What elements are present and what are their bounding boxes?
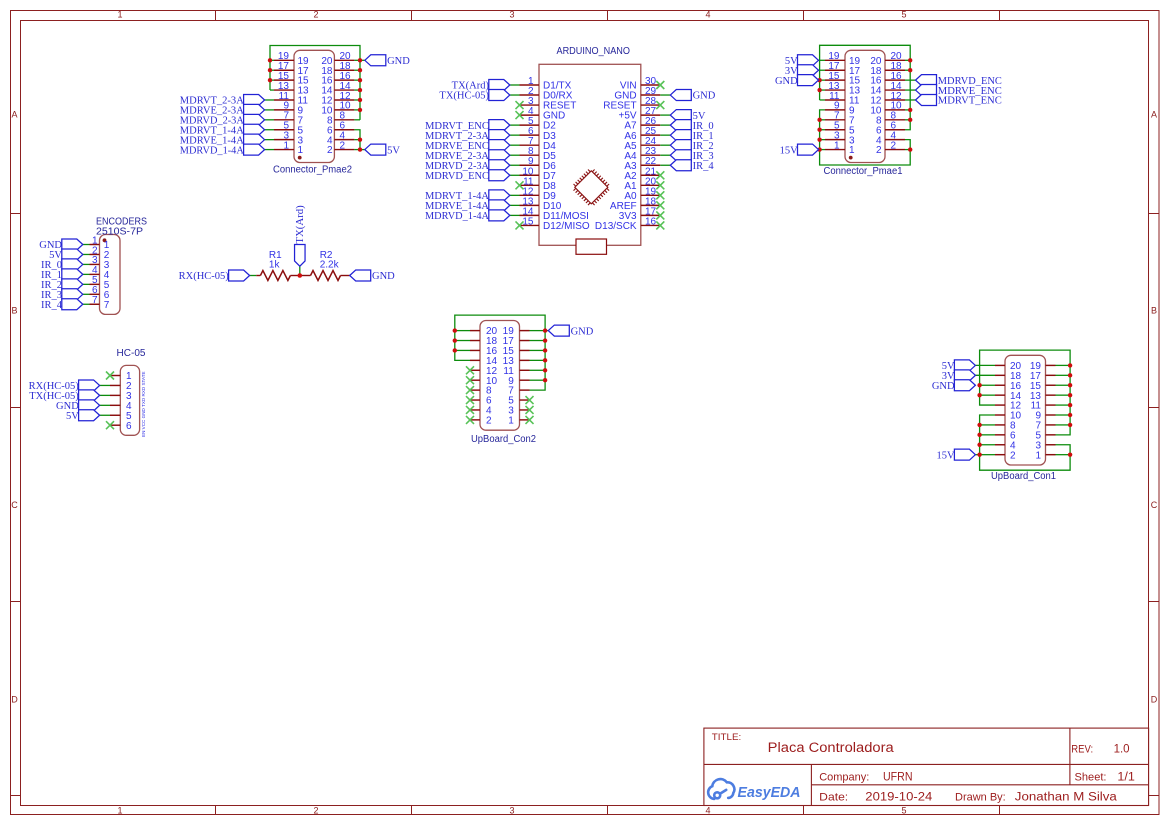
svg-text:1/1: 1/1 (1117, 772, 1135, 784)
ARDUINO_NANO right pin numbers 30-16 (645, 76, 657, 227)
connector ENCODERS 2510S-7P body (100, 235, 121, 315)
Connector_Pmae2 outside pin numbers right (340, 51, 352, 151)
resistor R2 2.2k (300, 271, 350, 281)
svg-text:GND: GND (571, 326, 594, 337)
wire MDRVD_2-3A to ARDUINO_NANO pin 9 (510, 164, 520, 166)
UpBoard_Con1 right pin stubs (1046, 365, 1056, 454)
Connector_Pmae1 pin 1 polarity dot (849, 156, 853, 160)
wire 5V to ARDUINO_NANO pin 27 (660, 114, 670, 116)
wire MDRVT_2-3A to Connector_Pmae2 (265, 99, 274, 101)
svg-text:D12/MISO: D12/MISO (543, 221, 590, 232)
svg-text:15V: 15V (780, 145, 799, 156)
net flag MDRVD_1-4A (425, 210, 510, 222)
net flag 5V (365, 144, 401, 156)
wire R2 to GND (350, 275, 352, 277)
net flag MDRVE_2-3A (425, 150, 510, 162)
svg-text:Jonathan M Silva: Jonathan M Silva (1015, 792, 1118, 804)
ruler column numbers top (117, 10, 906, 20)
ARDUINO_NANO right pin names (595, 81, 637, 232)
wire RX(HC-05) to HC-05 pin 2 (100, 384, 110, 386)
svg-text:1: 1 (298, 145, 304, 156)
net flag IR_0 (41, 259, 83, 271)
svg-text:C: C (1151, 500, 1158, 510)
wire IR_4 to ARDUINO_NANO pin 22 (660, 164, 670, 166)
net flag 5V (66, 410, 100, 422)
svg-text:5V: 5V (387, 145, 400, 156)
wire 5V to ENCODERS pin 2 (83, 253, 90, 255)
net flag GND (932, 380, 976, 392)
wire IR_3 to ARDUINO_NANO pin 23 (660, 154, 670, 156)
net flag 5V (785, 55, 819, 67)
Connector_Pmae1 inside pin names left column (849, 56, 861, 156)
junction dots GND net UpBoard_Con1 (977, 363, 1072, 427)
svg-text:1k: 1k (269, 260, 281, 271)
svg-text:3: 3 (509, 805, 514, 815)
net flag TX(HC-05) (29, 390, 99, 402)
svg-text:5: 5 (901, 805, 906, 815)
wire GND loop UpBoard_Con2 (455, 315, 549, 390)
net flag 5V (942, 360, 976, 372)
title block borders (704, 728, 1149, 805)
wire 15V loop UpBoard_Con1 (975, 415, 1070, 470)
wire GND loop UpBoard_Con1 (975, 350, 1070, 435)
svg-text:1: 1 (849, 145, 855, 156)
net flag 15V (937, 449, 976, 461)
net flag MDRVE_ENC (425, 140, 510, 152)
net flag GND (56, 400, 100, 412)
svg-text:6: 6 (126, 421, 132, 432)
net flag GND (350, 270, 395, 282)
svg-text:D: D (11, 695, 18, 705)
junction dots GND net Connector_Pmae2 (268, 58, 362, 112)
svg-text:UpBoard_Con2: UpBoard_Con2 (471, 434, 536, 445)
connector UpBoard_Con1 body (1005, 355, 1046, 465)
junction dots 15V net UpBoard_Con1 (977, 423, 1072, 457)
Connector_Pmae1 inside pin names right column (870, 56, 882, 156)
net flag RX(HC-05) (29, 380, 100, 392)
connector UpBoard_Con2 body (480, 321, 520, 431)
net flag MDRVD_2-3A (180, 114, 265, 126)
ARDUINO_NANO left pin numbers 1-15 (522, 76, 534, 227)
svg-text:1: 1 (117, 10, 122, 20)
svg-text:1: 1 (117, 805, 122, 815)
svg-text:3: 3 (509, 10, 514, 20)
wire IR_2 to ENCODERS pin 5 (83, 283, 90, 285)
Connector_Pmae2 pin 1 polarity dot (298, 156, 302, 160)
wire TX(Ard) to ARDUINO_NANO pin 1 (510, 84, 520, 86)
wire MDRVE_2-3A to ARDUINO_NANO pin 8 (510, 154, 520, 156)
connector Connector_Pmae2 body (294, 50, 334, 162)
connector Connector_Pmae1 body (845, 50, 885, 162)
net flag IR_4 (41, 299, 83, 311)
net flag MDRVT_2-3A (180, 94, 265, 106)
net flag 3V (785, 65, 819, 77)
UpBoard_Con2 inside pin names left column (486, 326, 498, 426)
ENCODERS pin 1 polarity dot (103, 238, 107, 242)
ARDUINO_NANO left pin names (543, 81, 590, 232)
svg-text:2: 2 (876, 145, 882, 156)
svg-text:2: 2 (340, 140, 346, 151)
HC-05 pin stubs 1-6 (110, 376, 120, 426)
wire MDRVD_1-4A to Connector_Pmae2 (265, 149, 274, 151)
wire MDRVD_ENC to ARDUINO_NANO pin 10 (510, 174, 520, 176)
svg-text:D: D (1151, 695, 1158, 705)
EasyEDA logo (708, 779, 800, 801)
svg-text:ARDUINO_NANO: ARDUINO_NANO (557, 46, 631, 57)
net flag MDRVT_ENC (425, 120, 510, 132)
svg-text:Connector_Pmae2: Connector_Pmae2 (273, 165, 352, 176)
net flag GND (365, 55, 410, 67)
UpBoard_Con1 inside pin names right column (1030, 361, 1042, 461)
ENCODERS outside pin numbers 1-7 (92, 235, 98, 306)
Connector_Pmae1 right pin stubs (885, 60, 905, 149)
svg-text:GND: GND (693, 91, 716, 102)
svg-text:MDRVT_ENC: MDRVT_ENC (938, 96, 1002, 107)
wire MDRVD_1-4A to ARDUINO_NANO pin 14 (510, 214, 520, 216)
wire GND to ARDUINO_NANO pin 29 (660, 94, 670, 96)
wire MDRVT_ENC to ARDUINO_NANO pin 5 (510, 124, 520, 126)
connector HC-05 body (120, 365, 139, 435)
wire 3V to Connector_Pmae1 pin 17 (819, 69, 826, 71)
net flag IR_2 (41, 279, 83, 291)
Connector_Pmae2 inside pin names left column (298, 56, 310, 156)
svg-text:5V: 5V (66, 411, 79, 422)
net flag GND (775, 75, 819, 87)
wire IR_0 to ARDUINO_NANO pin 26 (660, 124, 670, 126)
net flag 3V (942, 370, 976, 382)
net flag GND (548, 325, 593, 337)
ARDUINO_NANO bottom connector rectangle (576, 239, 607, 254)
wire 15V loop Connector_Pmae1 (819, 110, 911, 165)
wire IR_2 to ARDUINO_NANO pin 24 (660, 144, 670, 146)
wire MDRVE_1-4A to Connector_Pmae2 (265, 139, 274, 141)
svg-text:A: A (11, 110, 17, 120)
ARDUINO_NANO left pin stubs 1-15 (520, 85, 540, 225)
wire IR_1 to ARDUINO_NANO pin 25 (660, 134, 670, 136)
svg-text:Sheet:: Sheet: (1075, 772, 1107, 784)
junction dots 15V net Connector_Pmae1 (817, 118, 912, 152)
svg-text:REV:: REV: (1071, 744, 1093, 756)
svg-text:5: 5 (901, 10, 906, 20)
UpBoard_Con1 inside pin names left column (1010, 361, 1022, 461)
ENCODERS inside pin names 1-7 (104, 240, 110, 311)
Connector_Pmae2 left pin stubs 19,17,15,13,11,9,7,5,3,1 (274, 60, 294, 149)
Connector_Pmae1 left pin stubs (825, 60, 845, 149)
UpBoard_Con1 left pin stubs (995, 365, 1005, 454)
svg-text:IR_4: IR_4 (693, 161, 715, 172)
svg-text:C: C (11, 500, 18, 510)
svg-text:Drawn By:: Drawn By: (955, 792, 1006, 804)
svg-text:2019-10-24: 2019-10-24 (865, 792, 933, 804)
net flag TX(HC-05) (439, 90, 509, 102)
net flag MDRVE_1-4A (180, 134, 265, 146)
net flag MDRVD_ENC (425, 170, 510, 182)
svg-text:4: 4 (705, 805, 710, 815)
net flag TX(Ard) (452, 80, 510, 92)
net flag MDRVE_2-3A (180, 104, 265, 116)
svg-text:GND: GND (387, 56, 410, 67)
net flag MDRVT_2-3A (425, 130, 510, 142)
wire GND to ENCODERS pin 1 (83, 244, 90, 246)
wire MDRVE_2-3A to Connector_Pmae2 (265, 109, 274, 111)
junction dots GND net UpBoard_Con2 (453, 328, 548, 382)
svg-text:15: 15 (522, 216, 534, 227)
wire 5V to HC-05 pin 5 (100, 414, 110, 416)
net flag RX(HC-05) (179, 270, 250, 282)
svg-text:TITLE:: TITLE: (712, 732, 742, 743)
resistor R1 1k (256, 271, 300, 281)
wire 5V net Connector_Pmae2 (354, 130, 364, 150)
svg-text:1.0: 1.0 (1114, 744, 1130, 756)
wire GND to HC-05 pin 4 (100, 404, 110, 406)
svg-text:EasyEDA: EasyEDA (738, 784, 801, 801)
svg-text:16: 16 (645, 216, 657, 227)
wire GND loop Connector_Pmae1 (819, 45, 911, 129)
UpBoard_Con2 inside pin names right column (503, 326, 515, 426)
svg-text:2.2k: 2.2k (320, 260, 340, 271)
junction dots 5V net Connector_Pmae2 (358, 137, 362, 151)
wire MDRVE_ENC to Connector_Pmae1 (905, 89, 916, 91)
svg-text:4: 4 (705, 10, 710, 20)
wire MDRVD_ENC to Connector_Pmae1 (905, 79, 916, 81)
ENCODERS pin stubs 1-7 (90, 245, 100, 305)
net flag 5V (670, 110, 706, 122)
net flag MDRVD_ENC (916, 75, 1002, 87)
net flag IR_3 (670, 150, 713, 162)
ruler column numbers bottom (117, 805, 906, 815)
wire MDRVT_ENC to Connector_Pmae1 (905, 99, 916, 101)
svg-text:2510S-7P: 2510S-7P (96, 227, 143, 238)
UpBoard_Con2 right pin stubs (520, 331, 530, 420)
Connector_Pmae2 inside pin names right column (321, 56, 333, 156)
svg-text:UFRN: UFRN (883, 771, 913, 783)
wire TX(HC-05) to ARDUINO_NANO pin 2 (510, 94, 520, 96)
svg-text:7: 7 (104, 300, 110, 311)
svg-text:TX(Ard): TX(Ard) (294, 205, 306, 244)
no-connect ARDUINO_NANO right pins (656, 81, 664, 229)
svg-text:Placa Controladora: Placa Controladora (768, 740, 895, 755)
svg-text:1: 1 (1035, 450, 1041, 461)
svg-text:B: B (1151, 306, 1157, 316)
svg-text:MDRVD_1-4A: MDRVD_1-4A (180, 145, 244, 156)
ruler row letters left (11, 110, 18, 705)
wire IR_1 to ENCODERS pin 4 (83, 273, 90, 275)
net flag IR_1 (41, 269, 83, 281)
svg-text:1: 1 (508, 415, 514, 426)
Connector_Pmae2 outside pin numbers left (278, 51, 290, 151)
svg-text:HC-05: HC-05 (117, 348, 146, 359)
svg-text:MDRVD_ENC: MDRVD_ENC (425, 171, 489, 182)
net flag 15V (780, 144, 819, 156)
svg-text:GND: GND (372, 271, 395, 282)
net flag MDRVD_1-4A (180, 144, 265, 156)
svg-text:2: 2 (891, 140, 897, 151)
svg-text:UpBoard_Con1: UpBoard_Con1 (991, 471, 1056, 482)
wire GND loop Connector_Pmae2 (270, 46, 365, 120)
net flag MDRVE_ENC (916, 85, 1002, 97)
net flag IR_4 (670, 160, 714, 172)
net flag MDRVD_2-3A (425, 160, 510, 172)
net flag TX(Ard) vertical (294, 205, 306, 266)
ARDUINO_NANO MCU diamond symbol (570, 166, 612, 208)
junction dot node TX(Ard) (298, 273, 303, 278)
net flag MDRVT_ENC (916, 94, 1002, 106)
net flag IR_1 (670, 130, 713, 142)
net flag MDRVT_1-4A (425, 190, 510, 202)
net flag GND (670, 90, 715, 102)
wire MDRVD_2-3A to Connector_Pmae2 (265, 119, 274, 121)
no-connect UpBoard_Con2 left pins 12,10,8,6,4,2 (466, 366, 474, 424)
junction dots GND net Connector_Pmae1 (817, 58, 912, 122)
net flag GND (39, 239, 83, 251)
wire MDRVE_ENC to ARDUINO_NANO pin 7 (510, 144, 520, 146)
wire MDRVT_1-4A to Connector_Pmae2 (265, 129, 274, 131)
svg-text:1: 1 (834, 140, 840, 151)
svg-text:2: 2 (486, 415, 492, 426)
Connector_Pmae1 outside pin numbers left (828, 51, 840, 151)
net flag IR_0 (670, 120, 713, 132)
UpBoard_Con2 left pin stubs (470, 331, 480, 420)
svg-text:B: B (11, 306, 17, 316)
net flag 5V (49, 249, 83, 261)
wire 5V to Connector_Pmae1 pin 19 (819, 59, 826, 61)
Connector_Pmae1 outside pin numbers right (891, 51, 903, 151)
wire MDRVT_1-4A to ARDUINO_NANO pin 12 (510, 194, 520, 196)
svg-text:IR_4: IR_4 (41, 300, 63, 311)
svg-text:D13/SCK: D13/SCK (595, 221, 637, 232)
IC ARDUINO_NANO body (539, 64, 641, 245)
svg-text:2: 2 (327, 145, 333, 156)
net flag IR_2 (670, 140, 713, 152)
svg-text:EN VCC GND TXD RXD STATE: EN VCC GND TXD RXD STATE (141, 371, 146, 437)
svg-text:GND: GND (932, 381, 955, 392)
net flag MDRVE_1-4A (425, 200, 510, 212)
svg-text:TX(HC-05): TX(HC-05) (439, 91, 489, 102)
net flag MDRVT_1-4A (180, 124, 265, 136)
svg-text:A: A (1151, 110, 1157, 120)
ARDUINO_NANO right pin stubs 16-30 (641, 85, 661, 225)
svg-text:Date:: Date: (819, 792, 848, 804)
no-connect HC-05 pins 1 and 6 (106, 372, 114, 430)
no-connect UpBoard_Con2 right pins 5,3,1 (526, 396, 534, 424)
wire RX(HC-05) to R1 (250, 275, 257, 277)
wire IR_3 to ENCODERS pin 6 (83, 293, 90, 295)
wire MDRVE_1-4A to ARDUINO_NANO pin 13 (510, 204, 520, 206)
svg-text:2: 2 (1010, 450, 1016, 461)
wire TX(Ard) to R1-R2 junction (299, 266, 301, 275)
svg-text:15V: 15V (937, 450, 956, 461)
net flag IR_3 (41, 289, 83, 301)
svg-text:GND: GND (775, 76, 798, 87)
svg-text:7: 7 (92, 295, 98, 306)
ruler row letters right (1151, 110, 1158, 705)
svg-text:1: 1 (283, 140, 289, 151)
svg-text:2: 2 (313, 10, 318, 20)
svg-text:RX(HC-05): RX(HC-05) (179, 271, 230, 282)
HC-05 inside pin numbers 1-6 (126, 371, 132, 432)
no-connect ARDUINO_NANO left pins 3,4,11,15 (516, 101, 524, 229)
wire IR_4 to ENCODERS pin 7 (83, 303, 90, 305)
wire MDRVT_2-3A to ARDUINO_NANO pin 6 (510, 134, 520, 136)
wire IR_0 to ENCODERS pin 3 (83, 263, 90, 265)
Connector_Pmae2 right pin stubs 20,18,16,14,12,10,8,6,4,2 (334, 60, 354, 149)
wire TX(HC-05) to HC-05 pin 3 (100, 394, 110, 396)
svg-text:Connector_Pmae1: Connector_Pmae1 (824, 166, 903, 177)
svg-text:MDRVD_1-4A: MDRVD_1-4A (425, 211, 489, 222)
svg-text:2: 2 (313, 805, 318, 815)
svg-text:Company:: Company: (819, 771, 869, 783)
